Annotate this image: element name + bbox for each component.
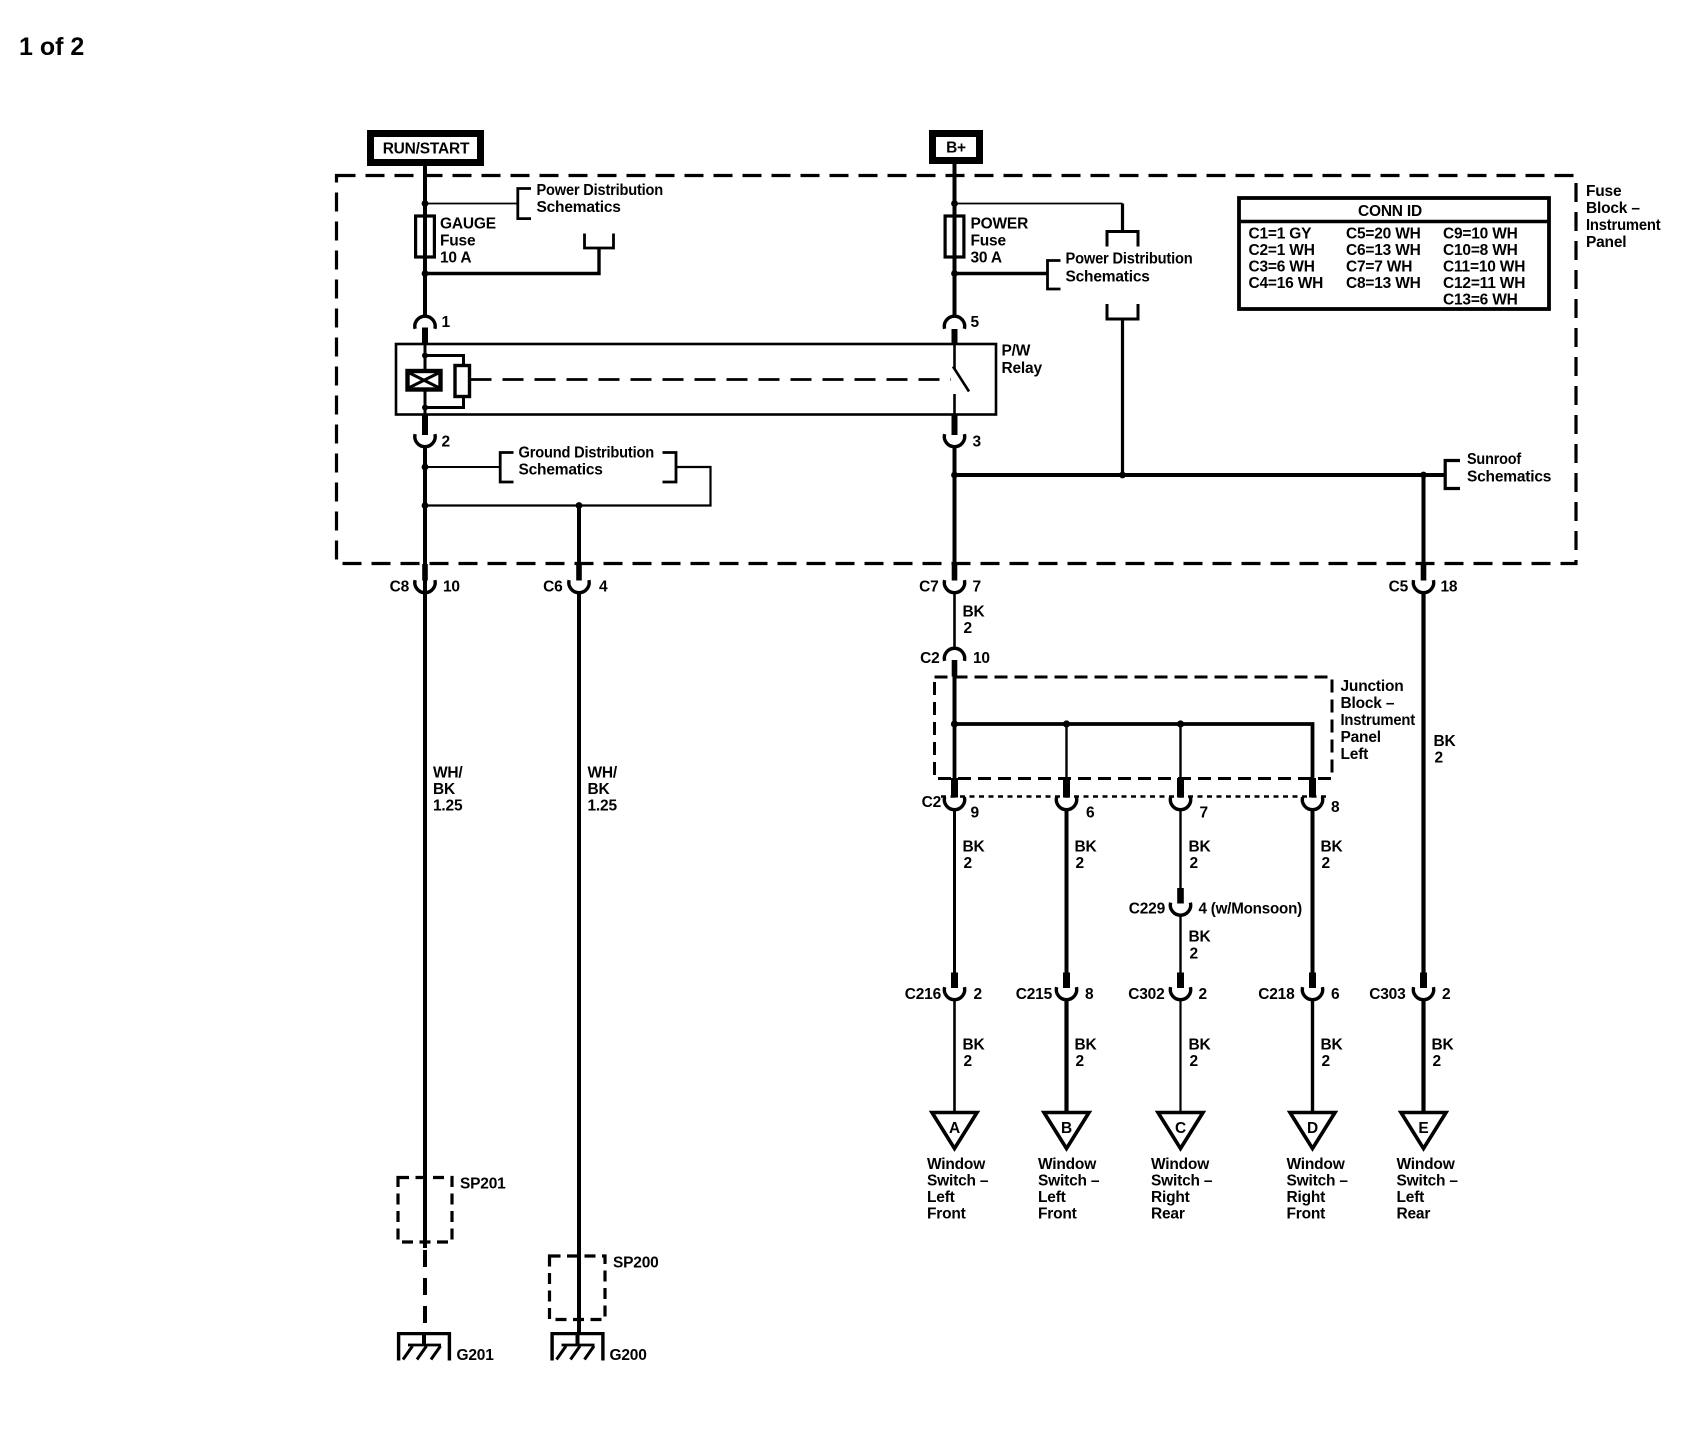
svg-text:BK: BK — [1189, 929, 1212, 946]
svg-text:Panel: Panel — [1586, 234, 1626, 251]
off-page bracket power distribution (left) — [518, 189, 531, 219]
wire C215 to triangle B — [1064, 1001, 1068, 1114]
svg-text:Power Distribution: Power Distribution — [1066, 251, 1193, 268]
svg-text:BK: BK — [1321, 1037, 1344, 1054]
svg-text:2: 2 — [974, 986, 982, 1003]
svg-text:C7=7 WH: C7=7 WH — [1346, 259, 1412, 276]
node junction P2 — [951, 270, 958, 277]
svg-text:7: 7 — [973, 579, 981, 596]
svg-text:2: 2 — [1076, 1053, 1084, 1070]
svg-text:2: 2 — [1435, 750, 1443, 767]
svg-text:2: 2 — [1442, 986, 1450, 1003]
connector C218 pin 6 — [1258, 973, 1340, 1004]
svg-text:C7: C7 — [919, 579, 938, 596]
svg-text:SP200: SP200 — [613, 1255, 659, 1272]
svg-text:3: 3 — [973, 434, 982, 451]
off-page bracket break top — [1107, 232, 1138, 247]
wire down to break bracket — [1121, 204, 1124, 232]
ground G200 — [551, 1332, 647, 1364]
svg-text:C5: C5 — [1389, 579, 1409, 596]
connector pin 3 (relay) — [944, 415, 981, 451]
svg-text:C2=1 WH: C2=1 WH — [1249, 242, 1315, 259]
svg-text:6: 6 — [1086, 805, 1095, 822]
svg-text:2: 2 — [1322, 1053, 1330, 1070]
wire ground-dist return to C6 tap — [425, 467, 711, 506]
svg-text:Junction: Junction — [1341, 678, 1404, 695]
svg-text:1 of 2: 1 of 2 — [19, 33, 84, 61]
connector C229 pin 4 — [1129, 888, 1302, 918]
svg-text:BK: BK — [1189, 839, 1212, 856]
off-page bracket power distribution (right) — [1048, 261, 1061, 290]
svg-text:7: 7 — [1200, 805, 1208, 822]
svg-text:G201: G201 — [457, 1347, 495, 1364]
svg-text:C302: C302 — [1128, 986, 1164, 1003]
svg-text:Window: Window — [927, 1156, 986, 1173]
svg-text:Instrument: Instrument — [1341, 712, 1416, 729]
svg-text:1.25: 1.25 — [433, 798, 463, 815]
relay coil box with X — [408, 371, 441, 390]
svg-text:C229: C229 — [1129, 901, 1166, 918]
svg-text:BK: BK — [1432, 1037, 1455, 1054]
connector C2 pin 7 — [1170, 778, 1208, 822]
wire C303 to triangle E — [1421, 1001, 1425, 1114]
svg-text:C8=13 WH: C8=13 WH — [1346, 275, 1421, 292]
svg-text:18: 18 — [1441, 579, 1458, 596]
svg-text:Ground Distribution: Ground Distribution — [519, 445, 655, 462]
svg-text:Window: Window — [1287, 1156, 1346, 1173]
svg-text:C216: C216 — [905, 986, 942, 1003]
svg-text:BK: BK — [1434, 733, 1457, 750]
svg-text:RUN/START: RUN/START — [383, 141, 470, 158]
junction block dashed outline — [935, 677, 1333, 779]
wire relay coil loop — [425, 356, 464, 408]
connector pin 5 (relay) — [944, 314, 979, 331]
svg-text:BK: BK — [433, 781, 456, 798]
svg-text:Window: Window — [1151, 1156, 1210, 1173]
wire bus drop A — [953, 724, 957, 779]
svg-text:2: 2 — [964, 855, 972, 872]
wire col D C2 to C218 — [1311, 811, 1315, 974]
node RUN/START — [371, 134, 481, 163]
connector C302 pin 2 — [1128, 973, 1207, 1004]
svg-text:5: 5 — [971, 314, 980, 331]
wire junction P2 to power-dist bracket right — [955, 272, 1048, 275]
svg-text:Instrument: Instrument — [1586, 217, 1661, 234]
wire bus drop C — [1179, 724, 1181, 779]
svg-text:B+: B+ — [946, 140, 966, 157]
svg-text:WH/: WH/ — [433, 765, 463, 782]
svg-text:C6=13 WH: C6=13 WH — [1346, 242, 1421, 259]
dotted tie line connector C2 row — [941, 795, 1327, 797]
wire C218 to triangle D — [1311, 1001, 1314, 1114]
node bus junction B — [1063, 720, 1070, 727]
connector C7 pin 7 — [919, 564, 981, 596]
svg-text:C2: C2 — [920, 650, 939, 667]
wire col E C5 to C303 — [1421, 594, 1425, 974]
svg-text:10: 10 — [443, 579, 460, 596]
svg-text:Power Distribution: Power Distribution — [537, 182, 664, 199]
relay switch contact right — [953, 344, 969, 415]
svg-text:Fuse: Fuse — [440, 233, 476, 250]
svg-text:Front: Front — [1287, 1206, 1326, 1223]
svg-text:Fuse: Fuse — [971, 233, 1007, 250]
node bus junction A — [951, 720, 958, 727]
svg-text:Schematics: Schematics — [537, 199, 621, 216]
svg-text:C12=11 WH: C12=11 WH — [1443, 275, 1525, 292]
ground G201 — [397, 1332, 494, 1364]
node junction A3 — [422, 464, 429, 471]
svg-text:Switch –: Switch – — [1038, 1173, 1100, 1190]
svg-text:C: C — [1175, 1120, 1186, 1137]
svg-text:Switch –: Switch – — [1397, 1173, 1459, 1190]
fuse block dashed outline — [337, 176, 1577, 564]
connector C8 pin 10 — [390, 564, 460, 596]
node junction P5 — [1420, 472, 1427, 479]
wire pin 2 down to C8 and SP201 — [423, 448, 427, 1249]
wire dashed SP201 to G201 — [423, 1250, 427, 1331]
svg-text:2: 2 — [1433, 1053, 1441, 1070]
svg-text:P/W: P/W — [1002, 343, 1031, 360]
svg-text:2: 2 — [964, 1053, 972, 1070]
svg-text:BK: BK — [1075, 839, 1098, 856]
wire C7 to C2 — [953, 594, 956, 649]
wire main horizontal power line — [955, 473, 1445, 477]
svg-text:Schematics: Schematics — [519, 462, 603, 479]
node junction P1 — [951, 200, 958, 207]
wire junction block bus — [955, 724, 1313, 779]
wire C216 to triangle A — [953, 1001, 956, 1114]
svg-text:Rear: Rear — [1397, 1206, 1431, 1223]
svg-text:Block –: Block – — [1341, 695, 1395, 712]
off-page bracket ground distribution right — [663, 453, 677, 483]
svg-text:2: 2 — [1190, 1053, 1198, 1070]
svg-text:BK: BK — [963, 604, 986, 621]
svg-text:C13=6 WH: C13=6 WH — [1443, 292, 1518, 309]
wire RUN/START to pin 1 — [423, 164, 427, 316]
off-page bracket sunroof — [1445, 461, 1460, 489]
svg-text:Left: Left — [1341, 746, 1369, 763]
node junction A4 — [422, 502, 429, 509]
svg-text:8: 8 — [1085, 986, 1094, 1003]
svg-text:Window: Window — [1038, 1156, 1097, 1173]
wire bus drop B — [1065, 724, 1067, 779]
connector C2 pin 10 — [920, 648, 990, 676]
svg-text:GAUGE: GAUGE — [440, 216, 496, 233]
splice SP201 dashed box — [398, 1178, 452, 1243]
connector C6 pin 4 — [543, 564, 608, 596]
pin 5 stub into relay — [952, 329, 958, 345]
off-page triangle A — [932, 1113, 977, 1149]
svg-text:6: 6 — [1331, 986, 1340, 1003]
wire C302 to triangle C — [1179, 1001, 1181, 1114]
svg-text:Schematics: Schematics — [1467, 469, 1551, 486]
svg-text:Left: Left — [1397, 1189, 1425, 1206]
svg-text:BK: BK — [963, 1037, 986, 1054]
svg-text:CONN ID: CONN ID — [1358, 203, 1422, 220]
svg-text:1: 1 — [442, 314, 451, 331]
svg-text:Window: Window — [1397, 1156, 1456, 1173]
svg-text:BK: BK — [588, 781, 611, 798]
svg-text:Rear: Rear — [1151, 1206, 1185, 1223]
off-page bracket ground distribution left — [500, 453, 513, 483]
svg-text:Sunroof: Sunroof — [1467, 451, 1522, 468]
svg-text:C10=8 WH: C10=8 WH — [1443, 242, 1518, 259]
wire C6 down to G200 — [577, 594, 581, 1334]
node coil junction bottom — [422, 405, 428, 411]
svg-text:1.25: 1.25 — [588, 798, 618, 815]
svg-text:Right: Right — [1151, 1189, 1190, 1206]
wire C2-10 into junction block — [953, 677, 957, 725]
wire junction A2 to lower bracket — [425, 249, 599, 274]
off-page bracket break bottom — [1107, 304, 1138, 319]
svg-text:30 A: 30 A — [971, 250, 1002, 267]
off-page bracket (cup) under power distribution label — [585, 234, 614, 249]
svg-text:4 (w/Monsoon): 4 (w/Monsoon) — [1199, 901, 1303, 918]
svg-text:BK: BK — [1189, 1037, 1212, 1054]
svg-text:2: 2 — [1076, 855, 1084, 872]
svg-text:E: E — [1418, 1120, 1428, 1137]
connector C303 pin 2 — [1369, 973, 1450, 1004]
svg-text:G200: G200 — [610, 1347, 647, 1364]
off-page triangle C — [1158, 1113, 1203, 1149]
wire junction P1 to power-dist break — [955, 203, 1123, 205]
connector C216 pin 2 — [905, 973, 982, 1004]
svg-text:C1=1 GY: C1=1 GY — [1249, 226, 1313, 243]
svg-text:Left: Left — [927, 1189, 955, 1206]
svg-text:SP201: SP201 — [460, 1176, 506, 1193]
svg-text:C4=16 WH: C4=16 WH — [1249, 275, 1324, 292]
svg-text:A: A — [949, 1120, 960, 1137]
svg-text:2: 2 — [1190, 946, 1198, 963]
svg-text:2: 2 — [442, 434, 450, 451]
svg-text:10 A: 10 A — [440, 250, 471, 267]
wire pin 3 to main junction line — [953, 448, 957, 565]
svg-text:C6: C6 — [543, 579, 563, 596]
svg-text:C9=10 WH: C9=10 WH — [1443, 226, 1518, 243]
svg-text:D: D — [1307, 1120, 1318, 1137]
svg-text:Switch –: Switch – — [1287, 1173, 1349, 1190]
wire break to main junction line — [1121, 319, 1124, 475]
svg-text:2: 2 — [1199, 986, 1207, 1003]
svg-text:BK: BK — [1321, 839, 1344, 856]
svg-text:WH/: WH/ — [588, 765, 618, 782]
svg-text:4: 4 — [599, 579, 608, 596]
wire C6 tap down — [577, 506, 581, 565]
splice SP200 dashed box — [550, 1256, 606, 1320]
svg-text:Right: Right — [1287, 1189, 1326, 1206]
svg-text:Block –: Block – — [1586, 200, 1640, 217]
svg-text:C303: C303 — [1369, 986, 1406, 1003]
svg-text:Relay: Relay — [1002, 360, 1043, 377]
connector C5 pin 18 — [1389, 564, 1458, 596]
relay contact rectangle — [455, 366, 470, 397]
svg-text:BK: BK — [1075, 1037, 1098, 1054]
dashed relay actuation line — [471, 378, 952, 381]
off-page triangle E — [1401, 1113, 1446, 1149]
svg-text:C218: C218 — [1258, 986, 1295, 1003]
wire col A C2 to C216 — [953, 811, 956, 974]
node junction A2 below gauge fuse — [422, 270, 429, 277]
svg-text:10: 10 — [973, 650, 990, 667]
svg-text:Schematics: Schematics — [1066, 269, 1150, 286]
wire junction P5 down to C5 — [1422, 475, 1426, 564]
fuse GAUGE 10A — [416, 216, 435, 257]
wire junction A1 to power-dist bracket — [425, 203, 518, 205]
svg-text:Fuse: Fuse — [1586, 183, 1622, 200]
svg-text:BK: BK — [963, 839, 986, 856]
connector C2 pin 9 — [922, 778, 980, 822]
svg-text:Switch –: Switch – — [927, 1173, 989, 1190]
off-page triangle B — [1044, 1113, 1089, 1149]
svg-text:8: 8 — [1331, 799, 1340, 816]
svg-text:POWER: POWER — [971, 216, 1029, 233]
connector pin 2 (relay) — [415, 415, 450, 451]
svg-text:Front: Front — [1038, 1206, 1077, 1223]
svg-text:Front: Front — [927, 1206, 966, 1223]
table CONN ID — [1239, 198, 1549, 309]
relay P/W outline — [396, 344, 996, 415]
svg-text:C3=6 WH: C3=6 WH — [1249, 259, 1315, 276]
node junction P4 — [1119, 472, 1126, 479]
svg-text:C8: C8 — [390, 579, 410, 596]
node coil junction top — [422, 353, 428, 359]
node junction A1 — [422, 200, 429, 207]
connector pin 1 (relay) — [415, 314, 451, 344]
svg-text:Left: Left — [1038, 1189, 1066, 1206]
wire relay coil vertical — [424, 344, 427, 415]
wire B+ to pin 5 — [953, 164, 957, 316]
off-page triangle D — [1290, 1113, 1335, 1149]
wire junction A3 to ground-dist bracket — [425, 466, 500, 468]
node B+ — [933, 134, 980, 161]
svg-text:Panel: Panel — [1341, 729, 1381, 746]
svg-text:2: 2 — [1322, 855, 1330, 872]
svg-text:2: 2 — [1190, 855, 1198, 872]
fuse POWER 30A — [945, 216, 964, 257]
connector C2 pin 8 — [1302, 778, 1340, 816]
svg-text:Switch –: Switch – — [1151, 1173, 1213, 1190]
connector C215 pin 8 — [1016, 973, 1094, 1004]
node bus junction C — [1177, 720, 1184, 727]
node junction P3 — [951, 472, 958, 479]
svg-text:C215: C215 — [1016, 986, 1053, 1003]
svg-text:C11=10 WH: C11=10 WH — [1443, 259, 1525, 276]
svg-text:2: 2 — [964, 620, 972, 637]
wire col B C2 to C215 — [1065, 811, 1069, 974]
node junction C6 tap — [576, 502, 583, 509]
svg-text:9: 9 — [971, 805, 980, 822]
connector C2 pin 6 — [1056, 778, 1095, 822]
svg-text:C5=20 WH: C5=20 WH — [1346, 226, 1421, 243]
svg-text:C2: C2 — [922, 794, 941, 811]
svg-text:B: B — [1061, 1120, 1072, 1137]
wire col C C2 to C229 — [1179, 811, 1181, 889]
wire C229 to C302 — [1179, 916, 1181, 973]
